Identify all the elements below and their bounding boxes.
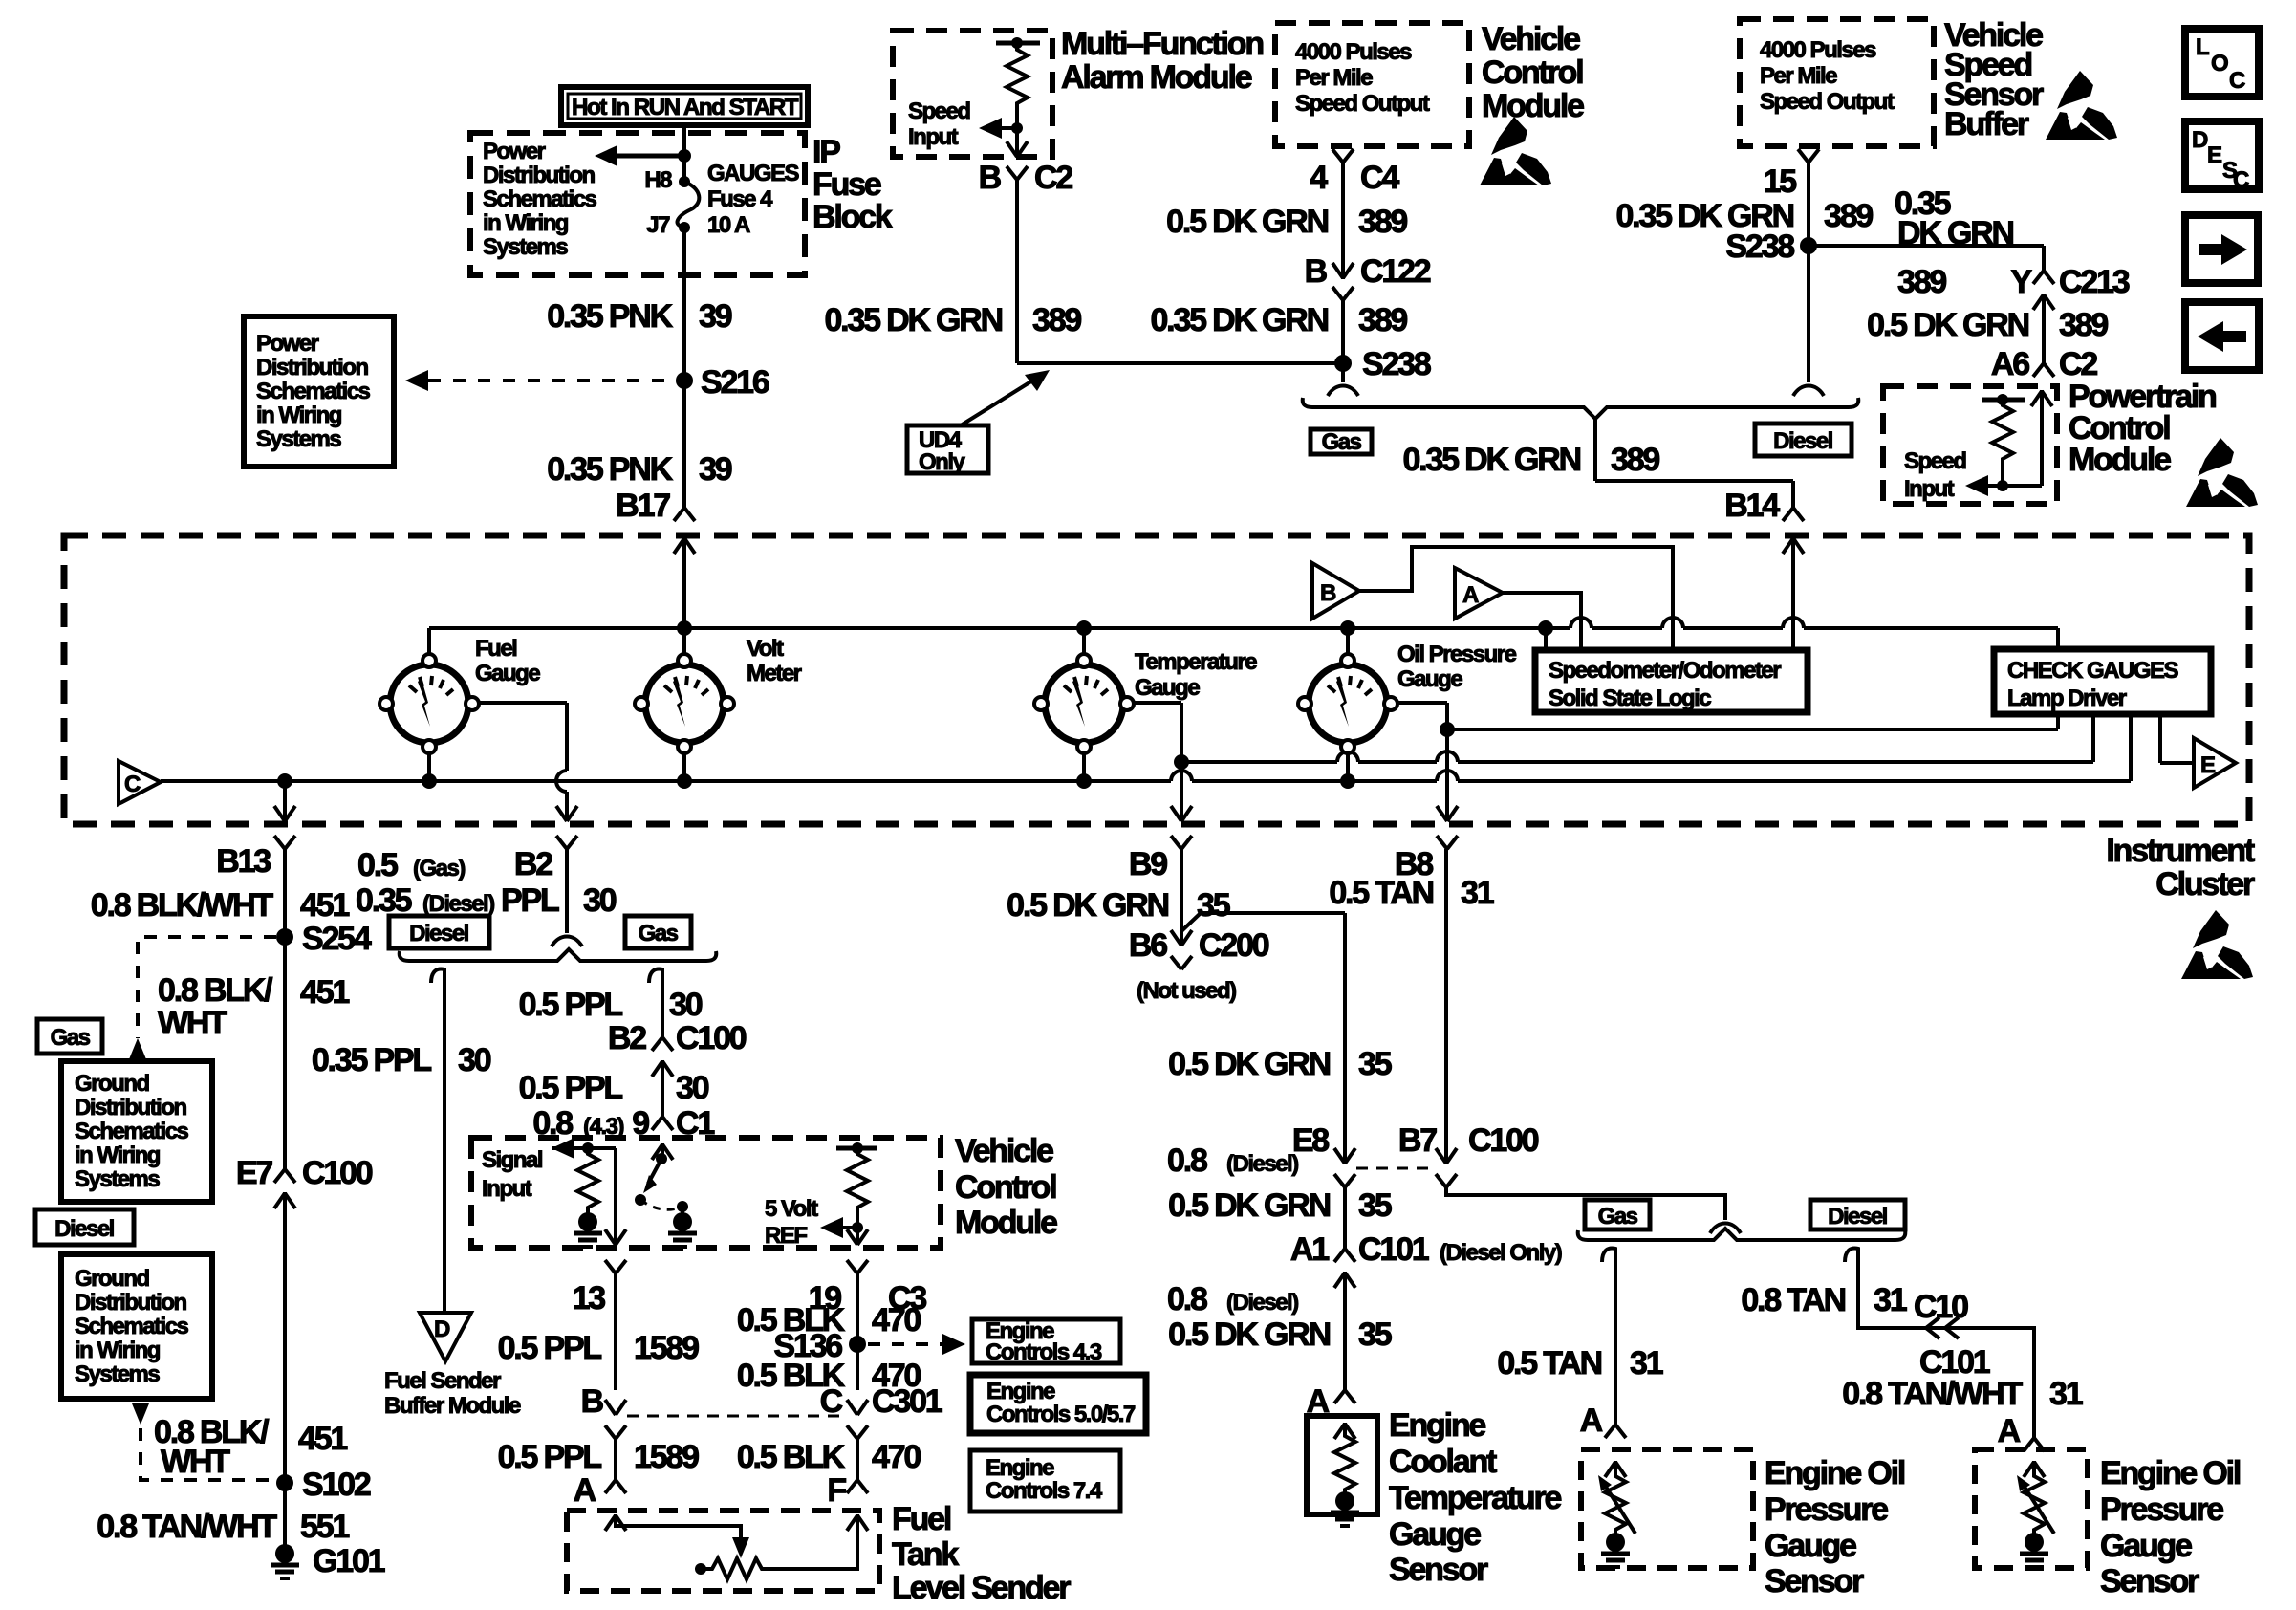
internal supply bar in PCM <box>1982 394 2025 405</box>
svg-text:REF: REF <box>765 1223 807 1249</box>
harness split brace (B2 to Diesel/Gas) <box>400 949 717 961</box>
speed input arrow in alarm module <box>979 118 1023 139</box>
svg-text:Fuse: Fuse <box>812 166 881 203</box>
svg-text:B13: B13 <box>216 843 271 880</box>
svg-text:389: 389 <box>1897 264 1946 300</box>
wire diesel branch to fuel sender buffer module <box>431 969 444 1313</box>
label Multi-Function Alarm Module <box>1061 26 1263 96</box>
svg-text:0.35 PNK: 0.35 PNK <box>547 298 673 335</box>
pin C / connector C301 labels <box>820 1383 942 1420</box>
svg-text:13: 13 <box>573 1280 606 1316</box>
svg-text:39: 39 <box>699 451 732 488</box>
ESD symbol (instrument cluster) <box>2181 910 2253 979</box>
svg-text:451: 451 <box>298 1421 347 1457</box>
svg-text:0.5 TAN: 0.5 TAN <box>1329 875 1433 911</box>
label Oil Pressure Gauge <box>1397 642 1517 692</box>
svg-text:Meter: Meter <box>747 661 802 686</box>
svg-text:Schematics: Schematics <box>483 186 597 212</box>
svg-text:1589: 1589 <box>634 1330 699 1366</box>
svg-text:30: 30 <box>676 1070 709 1106</box>
svg-text:0.35 PPL: 0.35 PPL <box>312 1042 432 1078</box>
svg-text:0.5 DK GRN: 0.5 DK GRN <box>1168 1187 1330 1224</box>
svg-text:Temperature: Temperature <box>1389 1480 1562 1516</box>
svg-text:Control: Control <box>1482 54 1583 91</box>
svg-text:B2: B2 <box>608 1020 646 1056</box>
svg-text:Controls 7.4: Controls 7.4 <box>986 1478 1103 1504</box>
wire arrow to power distribution <box>595 145 691 166</box>
label 0.5 TAN 31 (gas oil sensor) <box>1497 1345 1662 1382</box>
pin 19 / connector C3 labels <box>809 1280 927 1316</box>
label box Gas <box>1310 429 1372 455</box>
note 4000 Pulses Per Mile Speed Output <box>1295 39 1430 117</box>
label box Gas (oil split) <box>1585 1200 1650 1229</box>
svg-text:Instrument: Instrument <box>2106 833 2255 869</box>
label Fuel Tank Level Sender <box>892 1501 1071 1606</box>
svg-text:Ground: Ground <box>75 1266 149 1292</box>
label 0.35 DK GRN 389 (merged wire) <box>1402 442 1659 478</box>
svg-text:S216: S216 <box>701 364 769 401</box>
svg-text:Systems: Systems <box>75 1361 160 1387</box>
svg-text:30: 30 <box>458 1042 491 1078</box>
svg-text:Diesel: Diesel <box>54 1216 114 1242</box>
svg-text:31: 31 <box>2049 1376 2083 1412</box>
module Vehicle Control Module 4000 Pulses dashed box <box>1275 23 1469 146</box>
wire S238 to C213 <box>1809 246 2054 363</box>
wire B8 down to B7 connector <box>1444 849 1448 1163</box>
label box Diesel <box>1755 424 1852 456</box>
svg-text:Distribution: Distribution <box>75 1095 186 1120</box>
svg-text:Y: Y <box>2011 264 2033 300</box>
svg-text:(Diesel): (Diesel) <box>1226 1290 1298 1316</box>
wire bus from C across gauges to lamp driver <box>161 714 2131 781</box>
label Vehicle Speed Sensor Buffer <box>1944 17 2044 142</box>
wire diesel branch to C10 <box>1845 1249 2034 1438</box>
speed input arrow in PCM <box>1965 475 2008 496</box>
label Fuel Sender Buffer Module <box>384 1368 521 1419</box>
svg-text:Block: Block <box>812 199 893 235</box>
label 0.35 DK GRN (two lines above C213 wire) <box>1895 185 2014 251</box>
svg-text:A6: A6 <box>1991 346 2029 382</box>
svg-text:in Wiring: in Wiring <box>483 210 569 236</box>
label 0.5 BLK 470 (below C301) <box>737 1439 921 1475</box>
wire from B to speedometer logic <box>1359 547 1673 650</box>
label 0.5 BLK 470 (above S136) <box>737 1302 921 1338</box>
svg-text:Gauge: Gauge <box>1135 675 1200 701</box>
svg-text:Only: Only <box>919 449 965 475</box>
svg-text:(Gas): (Gas) <box>413 856 465 881</box>
svg-text:0.5 TAN: 0.5 TAN <box>1497 1345 1601 1382</box>
arrow from UD4 Only to C2 wire <box>961 370 1050 425</box>
svg-text:S238: S238 <box>1725 228 1794 265</box>
label 0.5 DK GRN 35 (to E8) <box>1168 1046 1392 1082</box>
internal supply bar in alarm module <box>996 37 1040 49</box>
node D (triangle) fuel sender buffer module <box>420 1313 471 1361</box>
svg-text:Sensor: Sensor <box>1389 1552 1488 1588</box>
svg-text:30: 30 <box>583 882 617 919</box>
svg-text:0.35 DK GRN: 0.35 DK GRN <box>1150 302 1328 338</box>
ground (coolant sensor) <box>1331 1491 1359 1526</box>
note 4000 Pulses Per Mile Speed Output (buffer) <box>1760 37 1895 115</box>
svg-text:B: B <box>581 1383 604 1420</box>
label Engine Oil Pressure Gauge Sensor (gas) <box>1765 1455 1905 1599</box>
svg-text:in Wiring: in Wiring <box>75 1338 161 1363</box>
svg-text:PPL: PPL <box>501 882 559 919</box>
node A (triangle) <box>1455 568 1503 619</box>
svg-text:C100: C100 <box>302 1155 373 1191</box>
legend box right arrow <box>2185 215 2258 283</box>
splice S102 <box>276 1467 371 1503</box>
connector fork at B17 cluster entry <box>674 508 695 521</box>
svg-text:Engine Oil: Engine Oil <box>2100 1455 2241 1491</box>
svg-text:0.5 DK GRN: 0.5 DK GRN <box>1867 307 2028 343</box>
svg-text:31: 31 <box>1630 1345 1663 1382</box>
label Vehicle Control Module <box>955 1133 1057 1241</box>
gauge temperature <box>1034 654 1134 753</box>
svg-text:S102: S102 <box>302 1467 371 1503</box>
svg-text:Input: Input <box>1904 476 1955 502</box>
junction dots on upper supply wire <box>677 620 1553 636</box>
label 0.8 TAN 31 (diesel) <box>1741 1282 1906 1318</box>
svg-text:0.8 TAN/WHT: 0.8 TAN/WHT <box>1842 1376 2023 1412</box>
wire S238 right branch down to merge brace <box>1793 386 1824 397</box>
wire inside PCM from A6 <box>2003 390 2052 486</box>
resistor coolant sensor <box>1334 1423 1355 1493</box>
svg-text:35: 35 <box>1358 1046 1392 1082</box>
legend box DESC <box>2185 121 2259 193</box>
wire upper supply inside cluster <box>429 618 2058 649</box>
svg-text:Gas: Gas <box>1598 1204 1638 1229</box>
svg-text:C: C <box>124 772 141 797</box>
label 0.5 PPL 30 (below C100) <box>519 1070 709 1106</box>
wire B7 to oil pressure split <box>1446 1187 1725 1220</box>
svg-text:Gauge: Gauge <box>2100 1528 2192 1564</box>
svg-text:Gas: Gas <box>1322 429 1362 455</box>
connector fork B2 <box>556 836 577 849</box>
svg-text:0.35 PNK: 0.35 PNK <box>547 451 673 488</box>
svg-text:0.8 BLK/WHT: 0.8 BLK/WHT <box>91 887 274 924</box>
svg-text:Lamp Driver: Lamp Driver <box>2007 685 2127 711</box>
wire middle (temp signal to lamp driver) <box>1181 714 2093 762</box>
connector C101 pin A1 inline <box>1334 1249 1355 1390</box>
label Instrument Cluster <box>2106 833 2255 903</box>
svg-text:(Diesel Only): (Diesel Only) <box>1440 1240 1562 1266</box>
connector fork at coolant sensor entry <box>1334 1390 1355 1403</box>
svg-text:E7: E7 <box>236 1155 272 1191</box>
connector C122 inline <box>1332 263 1354 363</box>
label 0.35 PNK 39 <box>547 298 732 335</box>
svg-text:A: A <box>574 1472 596 1509</box>
wire fuel tank sender pin F internal <box>768 1514 868 1569</box>
variable resistor oil sensor (gas) <box>1598 1461 1635 1534</box>
svg-text:E: E <box>2207 142 2222 168</box>
wire oil gauge top feed <box>1346 628 1350 661</box>
potentiometer fuel level sender <box>695 1558 768 1579</box>
harness split brace (oil pressure Gas/Diesel) <box>1578 1229 1906 1240</box>
svg-text:C10: C10 <box>1914 1289 1968 1325</box>
svg-text:Pressure: Pressure <box>2100 1491 2223 1528</box>
svg-text:H8: H8 <box>644 167 672 193</box>
svg-text:389: 389 <box>1824 198 1873 234</box>
svg-text:0.5 DK GRN: 0.5 DK GRN <box>1168 1046 1330 1082</box>
svg-text:Cluster: Cluster <box>2155 866 2255 903</box>
svg-text:Control: Control <box>955 1169 1056 1206</box>
svg-text:(Diesel): (Diesel) <box>1226 1151 1298 1177</box>
svg-text:39: 39 <box>699 298 732 335</box>
svg-text:C213: C213 <box>2059 264 2130 300</box>
label box Gas <box>37 1019 102 1054</box>
svg-text:Per Mile: Per Mile <box>1760 63 1837 89</box>
pin A1 / connector C101 labels <box>1290 1231 1562 1268</box>
wire B17 entry arrow <box>674 537 695 661</box>
svg-text:Level Sender: Level Sender <box>892 1570 1071 1606</box>
label Fuel Gauge <box>475 636 540 686</box>
connector C10 inline horizontal <box>1926 1317 1959 1338</box>
splice S238 <box>1334 346 1431 382</box>
dashed reference wire from S216 to power distribution box <box>405 370 676 391</box>
module Multi-Function Alarm Module dashed box <box>893 31 1052 157</box>
svg-text:C122: C122 <box>1360 253 1431 290</box>
svg-text:G101: G101 <box>313 1543 385 1579</box>
svg-text:O: O <box>2211 51 2228 76</box>
node B (triangle) <box>1312 563 1359 619</box>
wire oil signal to lamp driver <box>1447 714 2058 729</box>
svg-text:Gauge: Gauge <box>475 661 540 686</box>
label Speed Input (PCM) <box>1904 448 1966 502</box>
svg-text:Gauge: Gauge <box>1389 1516 1481 1553</box>
svg-text:451: 451 <box>300 887 349 924</box>
svg-text:S238: S238 <box>1362 346 1431 382</box>
svg-text:35: 35 <box>1358 1316 1392 1353</box>
fuse F4 GAUGES 10A <box>677 176 699 233</box>
svg-text:Hot In RUN And START: Hot In RUN And START <box>572 95 799 120</box>
svg-text:Vehicle: Vehicle <box>1482 21 1580 57</box>
label 0.5 DK GRN 389 (below C213) <box>1867 307 2108 343</box>
svg-text:B: B <box>1320 580 1336 606</box>
svg-text:Tank: Tank <box>892 1536 959 1573</box>
svg-text:A: A <box>1580 1403 1603 1439</box>
svg-text:10 A: 10 A <box>707 212 750 238</box>
svg-text:D: D <box>434 1316 450 1342</box>
svg-text:A: A <box>1998 1413 2021 1449</box>
label Volt Meter <box>747 636 802 686</box>
svg-text:C2: C2 <box>1034 160 1072 196</box>
node E (triangle) <box>2194 738 2236 788</box>
junction dots on bus <box>277 773 1355 789</box>
module Powertrain Control Module dashed box <box>1883 386 2057 504</box>
svg-text:Per Mile: Per Mile <box>1295 65 1373 91</box>
connector fork B13 <box>274 836 295 849</box>
svg-text:Multi–Function: Multi–Function <box>1061 26 1263 62</box>
svg-text:Speedometer/Odometer: Speedometer/Odometer <box>1549 658 1781 684</box>
wire out of buffer pin 15 <box>1798 149 1819 382</box>
svg-text:Speed Output: Speed Output <box>1760 89 1895 115</box>
label 0.8 BLK/WHT 451 <box>91 887 350 924</box>
svg-text:Fuel: Fuel <box>892 1501 951 1537</box>
pin 4 / connector C4 labels <box>1310 160 1399 196</box>
pin E7 / connector C100 labels <box>236 1155 373 1191</box>
svg-text:0.5 PPL: 0.5 PPL <box>498 1330 602 1366</box>
svg-text:5 Volt: 5 Volt <box>765 1196 818 1222</box>
svg-text:Diesel: Diesel <box>1828 1204 1887 1229</box>
svg-text:Module: Module <box>955 1205 1057 1241</box>
label Engine Oil Pressure Gauge Sensor (diesel) <box>2100 1455 2241 1599</box>
wire fuel gauge top feed <box>427 628 431 661</box>
label 0.5 DK GRN 389 (C4 wire) <box>1166 204 1407 240</box>
wire B14 to speedometer logic <box>1783 537 1804 650</box>
svg-text:35: 35 <box>1358 1187 1392 1224</box>
svg-text:Speed: Speed <box>1904 448 1966 474</box>
svg-text:Speed: Speed <box>908 98 970 124</box>
svg-text:in Wiring: in Wiring <box>75 1142 161 1168</box>
svg-text:(Diesel): (Diesel) <box>422 891 494 917</box>
note box Power Distribution Schematics in Wiring Systems <box>244 316 394 467</box>
5 volt ref supply bar (VCM) <box>836 1142 877 1154</box>
harness merge brace (Gas/Diesel to 389) <box>1303 398 1859 419</box>
label 0.8 (4.3) 9 / connector C1 <box>532 1105 714 1142</box>
ground (signal input resistor) <box>574 1212 602 1247</box>
connector fork B9 <box>1171 836 1192 849</box>
svg-text:C100: C100 <box>676 1020 747 1056</box>
svg-text:C101: C101 <box>1358 1231 1429 1268</box>
svg-text:A1: A1 <box>1290 1231 1329 1268</box>
svg-text:4000 Pulses: 4000 Pulses <box>1295 39 1412 65</box>
wire oil gauge bottom to bus <box>1346 747 1350 781</box>
svg-text:551: 551 <box>300 1509 349 1545</box>
svg-text:Oil Pressure: Oil Pressure <box>1397 642 1517 667</box>
connector fork B8 <box>1437 836 1458 849</box>
svg-text:E: E <box>2200 752 2216 778</box>
svg-text:B6: B6 <box>1129 927 1167 964</box>
label Engine Coolant Temperature Gauge Sensor <box>1389 1407 1562 1588</box>
svg-text:Distribution: Distribution <box>75 1290 186 1316</box>
wire fuel gauge bottom to bus <box>427 747 431 781</box>
svg-text:C200: C200 <box>1199 927 1269 964</box>
svg-text:S254: S254 <box>302 921 372 957</box>
wire gas branch to oil sensor <box>1602 1249 1626 1438</box>
label 5 Volt REF <box>765 1196 818 1249</box>
label box Gas (fuel split) <box>625 916 691 948</box>
label box Diesel (oil split) <box>1810 1200 1905 1229</box>
svg-text:Module: Module <box>1482 88 1584 124</box>
wire from merge brace down to B14 <box>1595 419 1793 508</box>
label 0.35 PNK 39 (second) <box>547 451 732 488</box>
svg-text:C301: C301 <box>872 1383 942 1420</box>
label Signal Input <box>482 1147 542 1202</box>
svg-text:Module: Module <box>2069 442 2171 478</box>
svg-text:0.5: 0.5 <box>357 847 398 883</box>
svg-text:Volt: Volt <box>747 636 784 662</box>
label 0.5 PPL 1589 <box>498 1330 700 1366</box>
label 0.5 (Gas) 0.35 (Diesel) PPL 30 <box>356 847 617 919</box>
label box Diesel (fuel split) <box>389 916 489 948</box>
svg-text:Alarm Module: Alarm Module <box>1061 59 1252 96</box>
label 0.5 BLK 470 (below S136) <box>737 1358 921 1394</box>
svg-text:15: 15 <box>1764 163 1797 200</box>
svg-text:470: 470 <box>872 1302 921 1338</box>
svg-text:Power: Power <box>483 139 546 164</box>
svg-text:Fuel: Fuel <box>475 636 516 662</box>
connector C100 pin E8 <box>1334 1148 1355 1249</box>
svg-text:B14: B14 <box>1724 488 1780 524</box>
svg-text:Pressure: Pressure <box>1765 1491 1888 1528</box>
svg-text:(Not used): (Not used) <box>1137 978 1236 1004</box>
svg-text:Coolant: Coolant <box>1389 1444 1497 1480</box>
svg-text:Systems: Systems <box>256 426 341 452</box>
svg-text:0.5 DK GRN: 0.5 DK GRN <box>1168 1316 1330 1353</box>
connector C1 inline <box>652 1117 673 1160</box>
label 0.35 DK GRN 389 (pin 15 wire) <box>1615 198 1873 234</box>
box CHECK GAUGES Lamp Driver <box>1994 649 2211 714</box>
svg-text:D: D <box>2192 127 2208 153</box>
wire supply stub to speedometer logic <box>1544 628 1548 650</box>
module Vehicle Control Module dashed box <box>471 1138 941 1248</box>
wire S238 down to harness merge <box>1328 363 1358 396</box>
svg-text:Engine: Engine <box>986 1379 1055 1404</box>
svg-text:Schematics: Schematics <box>75 1119 189 1144</box>
svg-text:470: 470 <box>872 1439 921 1475</box>
svg-text:4: 4 <box>1310 160 1328 196</box>
svg-text:0.8 BLK/: 0.8 BLK/ <box>158 972 273 1009</box>
label IP Fuse Block <box>812 134 893 235</box>
ground G101 <box>271 1543 385 1579</box>
svg-text:0.8 TAN: 0.8 TAN <box>1741 1282 1845 1318</box>
svg-text:F: F <box>827 1472 846 1509</box>
svg-text:0.8 TAN/WHT: 0.8 TAN/WHT <box>97 1509 277 1545</box>
svg-text:B7: B7 <box>1398 1122 1437 1159</box>
label 0.35 DK GRN 389 (C2 wire) <box>824 302 1081 338</box>
dashed reference S136 to engine controls <box>868 1334 965 1355</box>
svg-text:Buffer Module: Buffer Module <box>384 1393 521 1419</box>
gauge volt meter <box>635 654 734 753</box>
svg-text:389: 389 <box>1611 442 1659 478</box>
svg-text:Gas: Gas <box>639 921 679 946</box>
pin B2 / connector C100 labels <box>608 1020 747 1056</box>
svg-text:Diesel: Diesel <box>409 921 468 946</box>
svg-text:WHT: WHT <box>158 1005 227 1041</box>
component Engine Oil Pressure Gauge Sensor dashed box (diesel) <box>1975 1449 2088 1568</box>
wire temp gauge top feed <box>1082 628 1086 661</box>
svg-text:389: 389 <box>1358 302 1407 338</box>
svg-text:Sensor: Sensor <box>2100 1563 2199 1599</box>
box Speedometer/Odometer Solid State Logic <box>1535 650 1808 712</box>
component Engine Oil Pressure Gauge Sensor dashed box (gas) <box>1581 1449 1753 1568</box>
svg-text:0.35: 0.35 <box>356 882 412 919</box>
connector fork at B14 cluster entry <box>1783 508 1804 521</box>
resistor 5 volt ref (VCM) <box>847 1148 868 1228</box>
note box Engine Controls 5.0/5.7 <box>970 1375 1146 1433</box>
note box Engine Controls 7.4 <box>970 1450 1120 1512</box>
label 0.8 (Diesel) 0.5 DK GRN 35 (to sensor) <box>1167 1281 1392 1353</box>
label box "Hot In RUN And START" <box>561 87 808 125</box>
wire temp sender drop to B9 <box>1127 703 1192 821</box>
svg-text:0.5 PPL: 0.5 PPL <box>519 987 623 1023</box>
gauge fuel <box>379 654 479 753</box>
signal input arrow and pin 13 wire (VCM) <box>552 1138 626 1245</box>
connector fork below VCM pin 13 <box>605 1260 626 1390</box>
svg-text:C100: C100 <box>1468 1122 1539 1159</box>
svg-text:Vehicle: Vehicle <box>955 1133 1053 1169</box>
svg-text:31: 31 <box>1874 1282 1907 1318</box>
ESD symbol (speed sensor buffer) <box>2046 71 2117 140</box>
connector C301 interface dashed line <box>627 1415 846 1418</box>
ESD symbol (PCM) <box>2186 438 2258 507</box>
connector C100 inline (pin B2) <box>652 1037 673 1117</box>
ground (switch) <box>668 1212 697 1247</box>
svg-text:35: 35 <box>1197 887 1230 924</box>
connector C301 right (pin C to F) <box>847 1400 868 1493</box>
svg-text:0.5 DK GRN: 0.5 DK GRN <box>1007 887 1168 924</box>
pin B / connector C122 labels <box>1305 253 1431 290</box>
